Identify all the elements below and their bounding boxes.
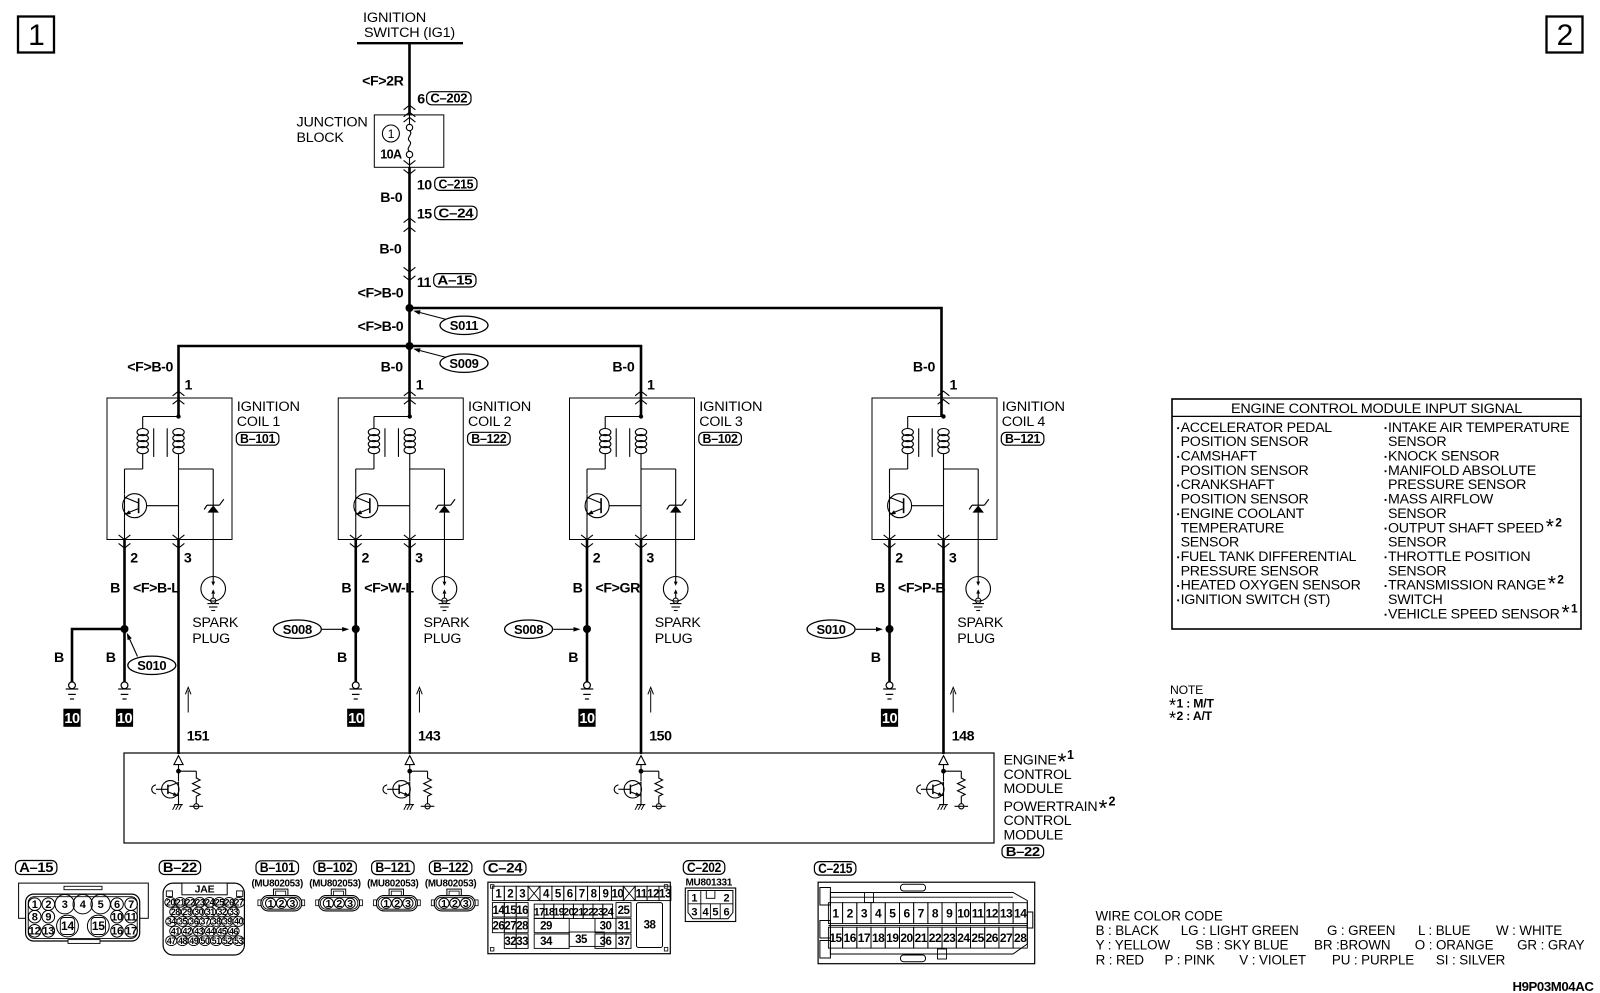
svg-text:<F>B-0: <F>B-0 (127, 359, 173, 375)
svg-text:28: 28 (1014, 931, 1027, 945)
svg-text:33: 33 (229, 907, 238, 917)
svg-text:IGNITION: IGNITION (699, 399, 762, 415)
svg-text:B-0: B-0 (380, 190, 403, 206)
svg-text:PLUG: PLUG (957, 631, 995, 647)
connector A-15 pin 11 crossing (404, 267, 476, 291)
svg-text:26: 26 (225, 898, 234, 908)
ECM driver circuit for coil 2 (pin 143) (383, 756, 434, 810)
coil 4 ground ref 10 (881, 709, 898, 728)
coil 3 zener diode (641, 469, 686, 577)
svg-text:SPARK: SPARK (423, 615, 470, 631)
svg-text:Y : YELLOW: Y : YELLOW (1096, 938, 1171, 953)
svg-text:10: 10 (957, 907, 970, 921)
svg-text:2: 2 (507, 888, 513, 900)
svg-text:<F>B-0: <F>B-0 (358, 285, 404, 301)
spark plug 1 (192, 577, 239, 648)
connector B-121 pinout (367, 860, 420, 911)
svg-text:3: 3 (646, 550, 654, 566)
svg-text:37: 37 (201, 917, 210, 927)
coil 1 pin 2 and pin 3 exits (119, 535, 192, 566)
svg-text:S009: S009 (449, 356, 478, 371)
svg-text:25: 25 (618, 905, 631, 917)
svg-text:COIL 1: COIL 1 (237, 414, 281, 430)
node S009 (406, 342, 489, 372)
coil 2 ground ref 10 (347, 709, 364, 728)
svg-text:22: 22 (929, 931, 942, 945)
connector C-24 pinout label (484, 860, 526, 875)
coil 3 power transistor (585, 494, 641, 540)
connector A-15 pinout drawing (19, 883, 149, 943)
svg-text:45: 45 (218, 926, 227, 936)
svg-text:41: 41 (171, 926, 180, 936)
svg-text:SPARK: SPARK (655, 615, 702, 631)
svg-text:6: 6 (417, 91, 425, 107)
ignition coil 4 box (B-121) (872, 398, 1065, 540)
svg-text:11: 11 (417, 275, 432, 291)
svg-text:151: 151 (187, 728, 210, 744)
connector B-102 pinout (309, 860, 362, 911)
svg-text:143: 143 (418, 728, 441, 744)
wire B from splice to ground (coil 1) (106, 629, 125, 682)
svg-text:VEHICLE SPEED SENSOR: VEHICLE SPEED SENSOR (1388, 606, 1560, 622)
svg-text:35: 35 (178, 917, 187, 927)
ground splice node S010 of coil 1 (121, 625, 176, 675)
svg-text:JAE: JAE (195, 884, 215, 896)
svg-text:38: 38 (212, 917, 221, 927)
connector C-24 pinout drawing (488, 882, 671, 954)
wire B <F>GR from coil 3 pin 2 (573, 540, 641, 630)
svg-text:JUNCTION: JUNCTION (297, 115, 368, 131)
svg-text:10: 10 (882, 711, 898, 727)
svg-text:S010: S010 (137, 658, 166, 673)
svg-text:2: 2 (361, 550, 369, 566)
coil 1 zener diode (179, 469, 224, 577)
svg-text:H9P03M04AC: H9P03M04AC (1512, 979, 1594, 993)
svg-text:10: 10 (111, 912, 123, 924)
svg-text:40: 40 (234, 917, 243, 927)
svg-text:B-0: B-0 (612, 359, 635, 375)
svg-text:2: 2 (723, 892, 729, 904)
svg-text:<F>W-L: <F>W-L (364, 580, 414, 596)
coil 1 ground (118, 682, 131, 699)
svg-text:B–22: B–22 (1006, 845, 1040, 859)
svg-text:COIL 3: COIL 3 (699, 414, 743, 430)
svg-text:31: 31 (618, 921, 631, 933)
svg-text:S010: S010 (817, 622, 846, 637)
svg-text:B : BLACK: B : BLACK (1096, 923, 1159, 938)
svg-text:B: B (875, 580, 885, 596)
coil 1 power transistor (123, 494, 179, 540)
svg-text:2: 2 (593, 550, 601, 566)
svg-text:16: 16 (516, 905, 528, 917)
svg-text:2: 2 (1557, 573, 1564, 587)
wire B <F>B-L from coil 1 pin 2 (110, 540, 180, 630)
spark plug 4 (957, 577, 1004, 648)
svg-text:3: 3 (519, 888, 525, 900)
wire coil 3 pin 3 to ECM pin 150 (641, 540, 672, 755)
svg-text:G : GREEN: G : GREEN (1327, 923, 1395, 938)
svg-text:*: * (1169, 708, 1176, 728)
connector B-101 pinout (251, 860, 304, 911)
svg-text:*: * (1562, 601, 1570, 624)
svg-text:2: 2 (336, 898, 342, 910)
svg-text:3: 3 (289, 898, 295, 910)
svg-text:MU801331: MU801331 (686, 878, 733, 889)
svg-text:6: 6 (567, 888, 573, 900)
svg-text:29: 29 (540, 921, 552, 933)
svg-text:27: 27 (1000, 931, 1013, 945)
svg-text:<F>P-B: <F>P-B (898, 580, 945, 596)
svg-text:(MU802053): (MU802053) (425, 878, 476, 889)
svg-text:SB : SKY BLUE: SB : SKY BLUE (1195, 938, 1288, 953)
svg-text:33: 33 (516, 936, 528, 948)
svg-text:6: 6 (903, 907, 910, 921)
svg-text:2: 2 (1109, 794, 1116, 808)
svg-text:*: * (1546, 515, 1554, 538)
svg-text:51: 51 (212, 936, 221, 946)
svg-text:1: 1 (416, 377, 424, 393)
wire B from splice to ground (coil 2) (337, 629, 356, 682)
svg-text:13: 13 (659, 888, 671, 900)
svg-text:1: 1 (1571, 601, 1578, 615)
ECM driver circuit for coil 4 (pin 148) (917, 756, 968, 810)
coil 1 pin 1 entry (173, 377, 193, 404)
svg-text:S008: S008 (514, 622, 543, 637)
coil 1 left ground (66, 682, 79, 699)
wire color code legend (1096, 908, 1585, 967)
connector C-215 pin 10 crossing (404, 170, 477, 194)
svg-text:14: 14 (61, 919, 74, 933)
svg-text:8: 8 (32, 912, 38, 924)
svg-text:C–215: C–215 (818, 861, 853, 876)
svg-text:IGNITION: IGNITION (237, 399, 300, 415)
wire label B-0 at coil 2 (381, 359, 404, 375)
svg-text:1: 1 (647, 377, 655, 393)
svg-text:(MU802053): (MU802053) (309, 878, 360, 889)
svg-text:148: 148 (952, 728, 975, 744)
svg-text:50: 50 (201, 936, 210, 946)
connector C-215 pinout label (814, 861, 856, 876)
svg-text:<F>GR: <F>GR (596, 580, 641, 596)
connector B-22 pinout label (159, 860, 200, 875)
svg-text:24: 24 (957, 931, 970, 945)
connector C-202 pinout drawing (685, 878, 735, 922)
ignition switch (IG1) label (357, 10, 463, 43)
svg-text:3: 3 (861, 907, 868, 921)
svg-text:7: 7 (579, 888, 585, 900)
svg-text:22: 22 (186, 898, 195, 908)
svg-text:SWITCH (IG1): SWITCH (IG1) (364, 25, 455, 41)
svg-text:SPARK: SPARK (192, 615, 239, 631)
svg-text:26: 26 (492, 921, 504, 933)
svg-text:3: 3 (62, 899, 68, 911)
svg-text:6: 6 (114, 899, 120, 911)
coil 4 pin 1 entry (938, 377, 958, 404)
coil 4 zener diode (944, 469, 989, 577)
coil 4 ground (883, 682, 896, 699)
svg-text:B: B (568, 650, 578, 666)
svg-text:O : ORANGE: O : ORANGE (1415, 938, 1494, 953)
svg-text:3: 3 (463, 898, 469, 910)
svg-text:11: 11 (636, 888, 648, 900)
coil 1 ground ref 10 (116, 709, 133, 728)
coil 4 primary/secondary transformer (890, 414, 950, 539)
svg-text:LG : LIGHT GREEN: LG : LIGHT GREEN (1181, 923, 1299, 938)
wire B-0 (C-24 to A-15) (379, 241, 402, 257)
svg-text:B: B (341, 580, 351, 596)
svg-text:24: 24 (602, 906, 613, 918)
svg-text:C–202: C–202 (687, 860, 721, 875)
wire label B-0 at coil 4 (913, 359, 936, 375)
wire label B-0 at coil 3 (612, 359, 635, 375)
svg-text:20: 20 (166, 898, 175, 908)
page reference box 2 (1547, 17, 1583, 53)
svg-text:2: 2 (895, 550, 903, 566)
wire coil 4 pin 3 to ECM pin 148 (944, 540, 975, 755)
svg-text:B–121: B–121 (375, 860, 411, 875)
svg-text:3: 3 (347, 898, 353, 910)
svg-text:12: 12 (986, 907, 999, 921)
svg-text:MODULE: MODULE (1004, 828, 1064, 844)
svg-text:3: 3 (405, 898, 411, 910)
svg-text:<F>B-0: <F>B-0 (358, 319, 404, 335)
svg-text:46: 46 (229, 926, 238, 936)
svg-text:A–15: A–15 (437, 274, 472, 288)
svg-text:38: 38 (644, 920, 657, 932)
svg-text:SI : SILVER: SI : SILVER (1436, 952, 1506, 967)
svg-text:10: 10 (117, 711, 133, 727)
coil 2 pin 1 entry (404, 377, 424, 404)
svg-text:C–215: C–215 (438, 177, 473, 191)
svg-text:17: 17 (125, 926, 137, 938)
svg-text:8: 8 (932, 907, 939, 921)
svg-text:BR :BROWN: BR :BROWN (1314, 938, 1390, 953)
svg-text:B-0: B-0 (379, 241, 402, 257)
svg-text:B-0: B-0 (381, 359, 404, 375)
svg-text:GR : GRAY: GR : GRAY (1517, 938, 1584, 953)
page reference box 1 (18, 17, 54, 53)
svg-text:10: 10 (579, 711, 595, 727)
svg-text:11: 11 (972, 907, 985, 921)
wire B from splice to ground (coil 4) (871, 629, 890, 682)
svg-text:4: 4 (875, 907, 882, 921)
ECM connector ref B-22 (1002, 845, 1044, 859)
svg-text:B–121: B–121 (1005, 432, 1040, 446)
svg-text:48: 48 (178, 936, 187, 946)
svg-text:2: 2 (394, 898, 400, 910)
wire B-0 (junction block to C-24) (380, 167, 409, 308)
svg-text:(MU802053): (MU802053) (251, 878, 302, 889)
svg-text:10A: 10A (380, 147, 402, 161)
coil 1 left ground branch wire (54, 629, 125, 682)
connector C-215 pinout drawing (818, 882, 1035, 964)
svg-text:2: 2 (1557, 19, 1574, 52)
svg-text:19: 19 (886, 931, 899, 945)
svg-text:PLUG: PLUG (655, 631, 693, 647)
fuse 1 10A in junction block (380, 115, 415, 167)
spark plug 3 (655, 577, 702, 648)
coil 3 pin 2 and pin 3 exits (581, 535, 654, 566)
wire bus S011 to ignition coil 4 (410, 308, 942, 417)
svg-text:2: 2 (1555, 515, 1562, 529)
connector C-24 pin 15 crossing (404, 206, 477, 232)
ground splice node S010 of coil 4 (807, 620, 893, 638)
svg-text:10: 10 (348, 711, 364, 727)
coil 1 primary/secondary transformer (125, 414, 185, 539)
svg-text:WIRE COLOR CODE: WIRE COLOR CODE (1096, 908, 1223, 923)
svg-text:COIL 4: COIL 4 (1002, 414, 1046, 430)
svg-text:52: 52 (223, 936, 232, 946)
ECM title text (1004, 748, 1116, 844)
coil 4 pin 2 and pin 3 exits (884, 535, 957, 566)
svg-text:7: 7 (128, 899, 134, 911)
drawing number H9P03M04AC (1512, 979, 1594, 993)
svg-text:3: 3 (691, 906, 697, 918)
svg-text:B: B (106, 650, 116, 666)
svg-text:53: 53 (234, 936, 243, 946)
svg-text:S011: S011 (450, 318, 479, 333)
note M/T A/T (1169, 683, 1214, 728)
svg-text:S008: S008 (283, 622, 312, 637)
wire coil 2 pin 3 to ECM pin 143 (410, 540, 441, 755)
svg-text:9: 9 (602, 888, 608, 900)
svg-text:*: * (1548, 573, 1556, 596)
svg-text:27: 27 (234, 898, 243, 908)
svg-text:CONTROL: CONTROL (1004, 813, 1072, 829)
coil 2 primary/secondary transformer (356, 414, 416, 539)
svg-text:43: 43 (194, 926, 203, 936)
svg-text:39: 39 (223, 917, 232, 927)
svg-text:21: 21 (915, 931, 928, 945)
svg-text:25: 25 (971, 931, 984, 945)
svg-text:2: 2 (130, 550, 138, 566)
svg-text:10: 10 (611, 888, 623, 900)
svg-text:15: 15 (417, 207, 432, 223)
ignition coil 2 box (B-122) (338, 398, 531, 540)
spark plug 2 (423, 577, 470, 648)
svg-text:B–102: B–102 (318, 860, 353, 875)
svg-text:11: 11 (125, 912, 136, 924)
svg-text:13: 13 (42, 926, 54, 938)
svg-text:3: 3 (184, 550, 192, 566)
svg-text:IGNITION: IGNITION (363, 10, 426, 26)
svg-text:C–202: C–202 (430, 92, 467, 106)
svg-text:23: 23 (943, 931, 956, 945)
svg-text:47: 47 (167, 936, 176, 946)
svg-text:26: 26 (986, 931, 999, 945)
svg-text:18: 18 (872, 931, 885, 945)
svg-text:44: 44 (206, 926, 215, 936)
svg-text:9: 9 (45, 912, 51, 924)
svg-text:1: 1 (691, 892, 697, 904)
svg-text:ENGINE CONTROL MODULE INPUT SI: ENGINE CONTROL MODULE INPUT SIGNAL (1231, 401, 1522, 417)
engine control module box (124, 753, 994, 843)
svg-text:MODULE: MODULE (1004, 781, 1064, 797)
ground splice node S008 of coil 2 (273, 620, 359, 638)
svg-text:2 : A/T: 2 : A/T (1177, 709, 1213, 723)
coil 2 pin 2 and pin 3 exits (350, 535, 423, 566)
svg-text:B: B (110, 580, 120, 596)
svg-text:B: B (54, 650, 64, 666)
svg-text:150: 150 (649, 728, 672, 744)
connector B-122 pinout (425, 860, 478, 911)
coil 1 left ground ref 10 (63, 709, 80, 728)
svg-text:9: 9 (946, 907, 953, 921)
svg-text:20: 20 (900, 931, 913, 945)
svg-text:25: 25 (215, 898, 224, 908)
coil 3 primary/secondary transformer (587, 414, 647, 539)
svg-text:10: 10 (64, 711, 80, 727)
svg-text:P : PINK: P : PINK (1165, 952, 1215, 967)
connector C-202 pinout label (683, 860, 725, 875)
svg-text:1: 1 (1067, 748, 1074, 762)
svg-text:A–15: A–15 (19, 860, 54, 875)
svg-text:<F>B-L: <F>B-L (133, 580, 180, 596)
coil 4 power transistor (888, 494, 944, 540)
ground splice node S008 of coil 3 (505, 620, 591, 638)
svg-text:B: B (871, 650, 881, 666)
svg-text:12: 12 (29, 926, 41, 938)
svg-text:14: 14 (1014, 907, 1027, 921)
svg-text:IGNITION: IGNITION (1002, 399, 1065, 415)
svg-text:(MU802053): (MU802053) (367, 878, 418, 889)
svg-text:1: 1 (185, 377, 193, 393)
svg-text:30: 30 (194, 907, 203, 917)
svg-text:B: B (337, 650, 347, 666)
ECM driver circuit for coil 1 (pin 151) (152, 756, 203, 810)
svg-text:1: 1 (441, 898, 447, 910)
wire coil 1 pin 3 to ECM pin 151 (179, 540, 210, 755)
ECM driver circuit for coil 3 (pin 150) (614, 756, 665, 810)
svg-text:R : RED: R : RED (1096, 952, 1145, 967)
svg-text:36: 36 (189, 917, 198, 927)
svg-text:28: 28 (171, 907, 180, 917)
engine control module input signal table (1172, 399, 1581, 629)
svg-text:28: 28 (516, 921, 529, 933)
svg-text:PU : PURPLE: PU : PURPLE (1332, 952, 1414, 967)
wire B <F>P-B from coil 4 pin 2 (875, 540, 945, 630)
svg-text:*: * (1099, 795, 1108, 821)
svg-text:C–24: C–24 (438, 206, 473, 220)
coil 3 pin 1 entry (635, 377, 655, 404)
svg-text:29: 29 (183, 907, 192, 917)
coil 2 power transistor (354, 494, 410, 540)
coil 3 ground ref 10 (578, 709, 595, 728)
wire label <F>B-0 at coil 1 (127, 359, 173, 375)
connector B-22 pinout drawing (163, 883, 244, 955)
svg-text:B–101: B–101 (260, 860, 296, 875)
svg-text:49: 49 (189, 936, 198, 946)
ignition coil 3 box (B-102) (570, 398, 763, 540)
svg-text:10: 10 (417, 177, 432, 193)
wire B from splice to ground (coil 3) (568, 629, 587, 682)
coil 2 zener diode (410, 469, 455, 577)
svg-text:COIL 2: COIL 2 (468, 414, 512, 430)
svg-text:42: 42 (183, 926, 192, 936)
svg-text:34: 34 (167, 917, 176, 927)
svg-text:BLOCK: BLOCK (297, 130, 345, 146)
svg-text:1: 1 (268, 898, 274, 910)
svg-text:30: 30 (600, 921, 612, 933)
svg-text:IGNITION: IGNITION (468, 399, 531, 415)
svg-text:1: 1 (28, 19, 45, 52)
svg-text:16: 16 (111, 926, 123, 938)
svg-text:1: 1 (388, 127, 395, 141)
svg-text:3: 3 (415, 550, 423, 566)
svg-text:36: 36 (600, 936, 612, 948)
svg-text:17: 17 (858, 931, 871, 945)
svg-text:5: 5 (712, 906, 718, 918)
